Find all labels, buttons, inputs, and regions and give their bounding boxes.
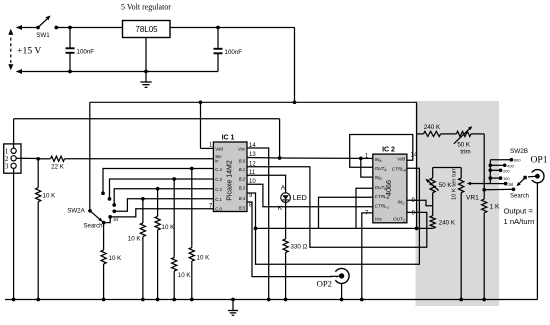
svg-text:IC 1: IC 1 — [222, 135, 235, 142]
svg-text:100nF: 100nF — [225, 49, 243, 56]
svg-text:trim: trim — [460, 149, 470, 156]
svg-text:10 K: 10 K — [162, 224, 176, 231]
svg-text:B.1: B.1 — [239, 167, 246, 172]
svg-text:10 K: 10 K — [43, 193, 57, 200]
svg-text:OP2: OP2 — [317, 279, 332, 289]
svg-text:A: A — [281, 184, 286, 191]
svg-text:B.5: B.5 — [239, 205, 246, 210]
svg-text:in: in — [215, 158, 219, 163]
svg-text:Picaxe 14M2: Picaxe 14M2 — [227, 160, 234, 201]
svg-text:240 K: 240 K — [424, 124, 441, 131]
svg-text:B.0: B.0 — [239, 158, 246, 163]
svg-text:5 Volt regulator: 5 Volt regulator — [121, 3, 171, 12]
svg-text:3: 3 — [5, 162, 9, 170]
svg-text:1 nA/turn: 1 nA/turn — [504, 217, 535, 226]
svg-text:330 Ω: 330 Ω — [291, 243, 308, 250]
svg-text:Output =: Output = — [504, 206, 534, 215]
svg-text:14: 14 — [411, 153, 418, 159]
svg-text:Vss: Vss — [375, 217, 383, 222]
svg-text:22 K: 22 K — [51, 164, 65, 171]
svg-text:IC 2: IC 2 — [382, 146, 395, 153]
svg-text:Vdd: Vdd — [397, 156, 405, 161]
svg-text:100: 100 — [503, 176, 510, 181]
svg-text:10 K: 10 K — [197, 255, 211, 262]
svg-text:10 K: 10 K — [178, 272, 192, 279]
svg-text:SW2A: SW2A — [67, 208, 85, 215]
svg-text:+15 V: +15 V — [17, 46, 41, 57]
svg-text:B.2: B.2 — [239, 177, 246, 182]
svg-text:100nF: 100nF — [77, 48, 95, 55]
svg-text:240 K: 240 K — [439, 220, 456, 227]
svg-text:50 K: 50 K — [457, 141, 471, 148]
svg-text:78L05: 78L05 — [135, 25, 158, 34]
svg-text:Search: Search — [83, 224, 102, 230]
svg-text:Vdd: Vdd — [215, 147, 223, 152]
svg-text:K: K — [278, 205, 283, 212]
svg-text:1 K: 1 K — [490, 204, 500, 211]
svg-text:SW2B: SW2B — [510, 148, 528, 155]
svg-text:50 K: 50 K — [439, 182, 453, 189]
svg-text:C.0: C.0 — [215, 206, 222, 211]
svg-text:LED: LED — [293, 193, 307, 202]
svg-text:C.1: C.1 — [215, 197, 222, 202]
svg-text:10 K: 10 K — [128, 236, 142, 243]
svg-text:10 K ten turn: 10 K ten turn — [452, 167, 458, 200]
svg-text:C.2: C.2 — [215, 187, 222, 192]
svg-text:Jnl: Jnl — [113, 217, 119, 222]
svg-text:10 K: 10 K — [109, 255, 123, 262]
svg-text:B.3: B.3 — [239, 186, 246, 191]
svg-text:200: 200 — [503, 168, 510, 173]
svg-text:Vss: Vss — [238, 146, 246, 151]
svg-text:SW1: SW1 — [36, 32, 50, 39]
svg-text:OP1: OP1 — [530, 154, 547, 165]
svg-text:C.4: C.4 — [215, 167, 222, 172]
svg-text:Search: Search — [510, 194, 529, 200]
svg-text:Jnl: Jnl — [508, 182, 513, 187]
svg-text:C.3: C.3 — [215, 177, 222, 182]
svg-text:B.4: B.4 — [239, 196, 246, 201]
svg-text:VR1: VR1 — [466, 194, 479, 201]
svg-text:800: 800 — [514, 158, 521, 163]
